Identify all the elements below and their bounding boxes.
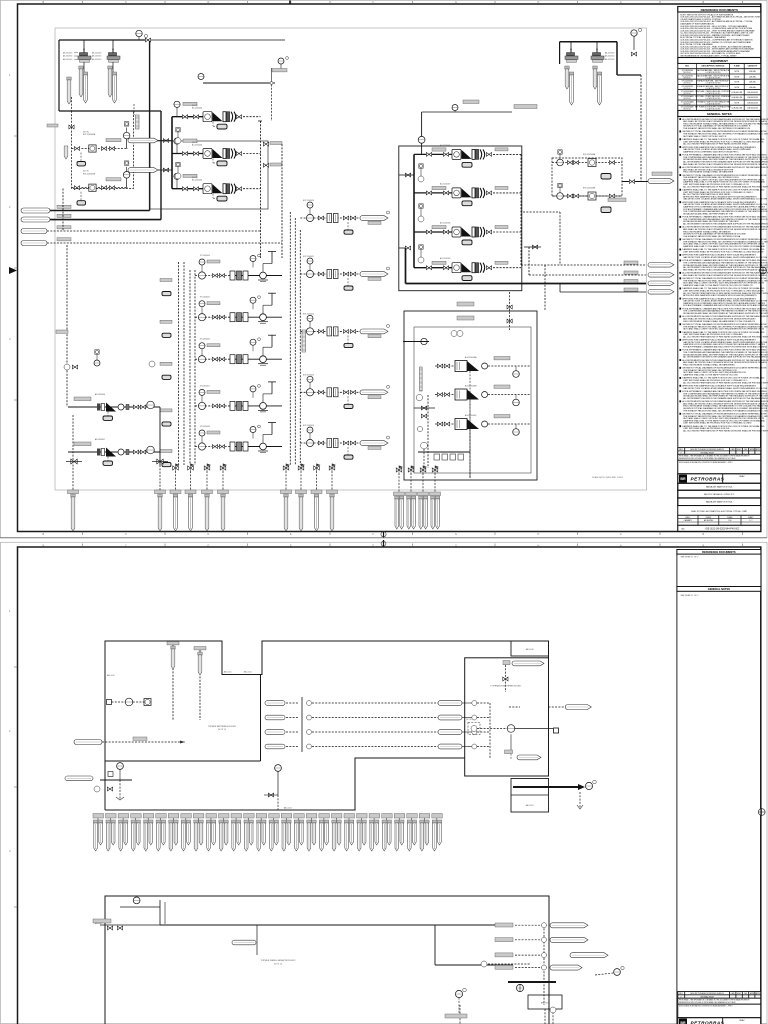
- package boundary AO unit: [399, 146, 522, 291]
- svg-text:I-DE-3M-: I-DE-3M-: [749, 71, 756, 73]
- blowdown header AO: [406, 248, 647, 284]
- filter unit F-2B: [591, 48, 604, 62]
- fan unit EXT-5202009: [552, 183, 622, 212]
- riser drop wires to flare: [176, 471, 436, 494]
- exhaust duct main: [513, 780, 596, 809]
- svg-text:SEE SHEET 1 OF 2: SEE SHEET 1 OF 2: [681, 595, 700, 597]
- AG inner boundary: [414, 327, 531, 473]
- vent stack VS-18: [306, 814, 317, 852]
- svg-text:LOCATION (NOTE): LOCATION (NOTE): [706, 71, 721, 74]
- discharge trunk AO: [520, 154, 522, 265]
- vent stack VS-9: [193, 814, 204, 852]
- vent stack VS-15: [269, 814, 280, 852]
- wire filters2 to header: [571, 42, 597, 52]
- svg-text:VT-5205005: VT-5205005: [200, 297, 210, 299]
- thermowell TW-2: [79, 66, 83, 97]
- drain valve row G1: [173, 464, 227, 472]
- discharge trunk AC: [258, 121, 262, 258]
- svg-text:ABL-5010: ABL-5010: [107, 674, 115, 677]
- vent stack VS-12: [231, 814, 242, 852]
- exhaust train EXT-5205014: [300, 425, 389, 459]
- svg-text:REFERENCE DOCUMENTS: REFERENCE DOCUMENTS: [702, 550, 736, 554]
- svg-text:CHK: CHK: [744, 449, 747, 451]
- svg-text:ALL DUCTWORK PENETRATIONS OF F: ALL DUCTWORK PENETRATIONS OF FIRE RATED …: [683, 143, 749, 146]
- wire to unit F: [640, 75, 642, 182]
- blower train AO-5202006: [414, 144, 521, 167]
- svg-text:AC-5202006: AC-5202006: [192, 107, 202, 110]
- lamp stack AC-B: [175, 128, 181, 144]
- equipment table: [678, 58, 761, 111]
- vt trunk bundle: [179, 262, 196, 465]
- drain valve AF-2: [152, 459, 168, 464]
- thermowell TW-6: [565, 66, 569, 89]
- svg-text:ABL-5011: ABL-5011: [224, 671, 231, 674]
- svg-text:I-DE-3010.1M: I-DE-3010.1M: [732, 97, 743, 99]
- svg-text:FOR A HYPERBARIC CHAMBER AND F: FOR A HYPERBARIC CHAMBER AND FACILITIES …: [683, 346, 767, 349]
- flare thermowell pair FT-11: [394, 492, 405, 529]
- flare thermowell FT-3: [170, 490, 181, 531]
- supply duct west: [74, 737, 185, 745]
- AG left instruments: [414, 394, 435, 468]
- left branch valves AO: [399, 173, 414, 250]
- trunk branch valves: [263, 142, 282, 259]
- fan unit EXT-5205006: [72, 161, 130, 205]
- limit box C: [528, 995, 562, 1009]
- vent stack VS-8: [181, 814, 192, 852]
- thermowell TW-1: [67, 77, 71, 104]
- svg-text:G: G: [455, 533, 457, 536]
- drawing area inner boundary: [55, 28, 647, 490]
- vent feeder: [544, 265, 546, 311]
- svg-text:AB-5202002: AB-5202002: [605, 58, 614, 61]
- svg-text:DAMPERS UPON CONFIRMED GAS DET: DAMPERS UPON CONFIRMED GAS DETECTION AS …: [683, 150, 739, 153]
- package unit EXT-5205005A/B boundary: [72, 111, 134, 189]
- package boundary AG unit: [404, 311, 537, 480]
- fan train VT-5205005: [160, 293, 282, 337]
- heater train AG-5205008A: [435, 356, 530, 478]
- blower train AO-5202009: [414, 257, 521, 280]
- svg-text:I-DE-3M-: I-DE-3M-: [749, 82, 756, 84]
- AF upper instruments: [64, 350, 155, 370]
- svg-text:REV.: REV.: [679, 449, 683, 451]
- flare thermowell FT-7: [281, 490, 292, 531]
- svg-text:HVAC SYSTEM - AUTOMATION & ELE: HVAC SYSTEM - AUTOMATION & ELECTRICAL TY…: [691, 510, 748, 513]
- svg-text:AB-5202001: AB-5202001: [63, 52, 72, 55]
- equipment room boundary B: [465, 658, 549, 776]
- svg-text:SCALE NOTE: DWG. REF. 1-5202: SCALE NOTE: DWG. REF. 1-5202: [592, 476, 624, 479]
- svg-text:GRAU: GRAU: [739, 475, 745, 478]
- lamp stack AC-C: [175, 162, 181, 179]
- vent stack VS-25: [394, 814, 405, 852]
- svg-text:AF-5205007: AF-5205007: [95, 438, 105, 441]
- exhaust train EXT-5205010: [300, 200, 389, 234]
- lamp stacks AO: [418, 164, 424, 182]
- riser pipe from inlet B: [160, 111, 162, 220]
- vent stack VS-3: [118, 814, 129, 852]
- compressor train AC-5202006: [172, 101, 261, 129]
- thermowell TW-4: [108, 66, 112, 97]
- svg-text:G: G: [455, 544, 457, 547]
- svg-text:(NOTE 4): (NOTE 4): [683, 88, 691, 90]
- svg-text:AB-5202001: AB-5202001: [92, 58, 101, 61]
- svg-text:IIA T3 AND SHALL COMPLY WITH I: IIA T3 AND SHALL COMPLY WITH IEC 60079 R: [683, 135, 727, 138]
- flare thermowell pair FT-12: [406, 492, 417, 529]
- svg-text:EXT-5205005A: EXT-5205005A: [83, 133, 96, 136]
- exhaust train EXT-5205011: [300, 256, 389, 290]
- room C inlet cluster: [93, 897, 165, 930]
- svg-text:VT-5205008: VT-5205008: [200, 426, 210, 428]
- outlet arrow R1: [624, 261, 674, 267]
- AG inlet labels: [457, 302, 474, 320]
- title block page 1: [678, 448, 761, 532]
- svg-text:(NOTE 12): (NOTE 12): [218, 729, 227, 731]
- svg-text:DAMPERS SHALL FAIL TO THE SAFE: DAMPERS SHALL FAIL TO THE SAFE POSITION …: [683, 284, 753, 287]
- svg-text:F OPERATOR BATTERIES ROOM 1: F OPERATOR BATTERIES ROOM 1: [491, 685, 522, 688]
- outlet arrow R2: [624, 271, 674, 277]
- side inlet AC-C: [128, 168, 172, 173]
- svg-text:PETROBRAS: PETROBRAS: [691, 477, 725, 482]
- corner tag box: [511, 641, 549, 656]
- svg-text:ABL-5012: ABL-5012: [244, 671, 252, 674]
- svg-text:AF-5205006: AF-5205006: [95, 393, 105, 396]
- svg-text:(NOTE 12): (NOTE 12): [274, 963, 283, 965]
- svg-text:BACIA DE SANTOS E SUL: BACIA DE SANTOS E SUL: [706, 486, 733, 489]
- page 1 border frame: [18, 4, 761, 532]
- svg-text:EXEC.: EXEC.: [686, 517, 691, 519]
- svg-text:INSTALLATION AND SHALL BE PERF: INSTALLATION AND SHALL BE PERFORMED BY T…: [683, 212, 733, 215]
- wire drop to unit B: [47, 97, 74, 129]
- svg-text:I-DE-3010.1M: I-DE-3010.1M: [732, 92, 743, 94]
- local panel cluster: [65, 763, 132, 800]
- svg-text:EXT-5202008A: EXT-5202008A: [583, 153, 596, 156]
- vent stack VS-7: [168, 814, 179, 852]
- svg-text:FIELD INSTRUMENT SIGNALS SHALL: FIELD INSTRUMENT SIGNALS SHALL BE HARDWI…: [683, 363, 735, 366]
- svg-text:C: C: [125, 1, 127, 4]
- inlet arrow N-3: [21, 226, 260, 234]
- outlet east line: [608, 172, 674, 202]
- svg-text:VT-5205004: VT-5205004: [200, 255, 210, 257]
- svg-text:DESCRIPTION AND/OR REVISED SHE: DESCRIPTION AND/OR REVISED SHEETS: [690, 448, 724, 451]
- page 2 sheet edge: [0, 542, 767, 1023]
- svg-text:D: D: [208, 533, 210, 536]
- p2 general notes box: [677, 587, 761, 1024]
- wire filters to header: [84, 40, 113, 52]
- svg-text:GAS DETECTORS LOCATED AT AIR I: GAS DETECTORS LOCATED AT AIR INTAKES SHA…: [683, 256, 768, 259]
- svg-text:PETROBRAS: PETROBRAS: [691, 1021, 725, 1024]
- svg-text:AC-5202006: AC-5202006: [192, 179, 202, 182]
- svg-text:APPROVED FIRE DAMPERS IN ACCOR: APPROVED FIRE DAMPERS IN ACCORDANCE WITH…: [683, 294, 757, 297]
- page 1 sheet edge: [0, 0, 767, 537]
- inlet arrow N-4: [21, 238, 282, 246]
- drain valve row H: [396, 466, 439, 474]
- hvac room boundary C: [105, 896, 549, 1024]
- zone target right edge: [760, 267, 767, 274]
- svg-text:AO-5202007: AO-5202007: [440, 182, 450, 185]
- svg-text:VT-5205007: VT-5205007: [200, 385, 210, 387]
- hatched tag G1: [302, 330, 306, 352]
- page 2 margin ticks: [43, 540, 743, 547]
- svg-text:LIMIT SWITCHES SHALL BE PROVID: LIMIT SWITCHES SHALL BE PROVIDED FOR FUL…: [683, 251, 764, 254]
- svg-text:AG-5205008A: AG-5205008A: [465, 356, 477, 359]
- svg-text:IIA T3 AND SHALL COMPLY WITH I: IIA T3 AND SHALL COMPLY WITH IEC 60079 R…: [683, 328, 764, 331]
- svg-text:DAMPERS SHALL FAIL TO THE SAFE: DAMPERS SHALL FAIL TO THE SAFE POSITION …: [683, 374, 738, 377]
- unit boundary AC trains: [150, 141, 268, 209]
- svg-text:ALL DUCTWORK PENETRATIONS OF F: ALL DUCTWORK PENETRATIONS OF FIRE RATED …: [683, 381, 768, 384]
- svg-text:CAPACITY: CAPACITY: [748, 65, 758, 68]
- vent stack VS-26: [407, 814, 418, 852]
- svg-text:I-DE-3010.1M: I-DE-3010.1M: [732, 108, 743, 110]
- flare thermowell FT-2: [155, 490, 166, 531]
- room A register rows: [265, 697, 438, 752]
- reference documents box: [678, 7, 761, 58]
- svg-text:FOR A HYPERBARIC CHAMBER AND F: FOR A HYPERBARIC CHAMBER AND FACILITIES …: [683, 304, 767, 307]
- svg-text:EXT-5202008B: EXT-5202008B: [583, 188, 596, 190]
- room B lower vent: [505, 734, 542, 760]
- vent stack VS-6: [156, 814, 167, 852]
- manifold AO: [413, 154, 415, 267]
- flare thermowell FT-1: [68, 490, 79, 531]
- vent stack VS-28: [432, 814, 443, 852]
- scale note: [592, 476, 624, 479]
- AG top instruments: [507, 292, 512, 330]
- svg-text:AG-5205008B: AG-5205008B: [465, 385, 477, 388]
- svg-text:TAG: TAG: [685, 65, 689, 68]
- side inlet AC-B: [128, 138, 172, 143]
- svg-text:(NOTE 4): (NOTE 4): [683, 77, 691, 79]
- svg-text:LOCATION (NOTE): LOCATION (NOTE): [706, 102, 721, 105]
- thermowell TW-9: [597, 72, 601, 105]
- vent stack VS-23: [369, 814, 380, 852]
- heater train AG-5205008C: [435, 414, 530, 478]
- svg-text:SHEET: SHEET: [748, 517, 753, 519]
- svg-text:I-DE-3010.1M: I-DE-3010.1M: [747, 97, 758, 99]
- svg-text:AND SHALL BE TESTED IN ACCORDA: AND SHALL BE TESTED IN ACCORDANCE WITH T…: [683, 268, 767, 271]
- svg-text:ALL INSTRUMENTS SHOWN IN THIS: ALL INSTRUMENTS SHOWN IN THIS DRAWING AR…: [683, 356, 768, 359]
- fan train VT-5205007: [160, 382, 282, 426]
- svg-text:I-DE-3010.1M-5202-944-P4X-002: I-DE-3010.1M-5202-944-P4X-002: [705, 529, 740, 531]
- svg-text:I-DE-3010.1M: I-DE-3010.1M: [747, 108, 758, 110]
- svg-text:GAS DETECTORS LOCATED AT AIR I: GAS DETECTORS LOCATED AT AIR INTAKES SHA…: [683, 198, 768, 201]
- filter unit F-1B: [92, 48, 120, 75]
- outlet arrow R3: [624, 280, 674, 286]
- svg-text:LOCATION (NOTE): LOCATION (NOTE): [706, 87, 721, 90]
- svg-text:SEE SHEET 1 OF 2: SEE SHEET 1 OF 2: [681, 557, 700, 559]
- vent stack VS-17: [294, 814, 305, 852]
- corridor signal rows: [438, 701, 490, 759]
- manifold AC: [171, 117, 173, 189]
- svg-text:H: H: [538, 533, 540, 536]
- svg-text:FIELD INSTRUMENT SIGNALS SHALL: FIELD INSTRUMENT SIGNALS SHALL BE HARDWI…: [683, 320, 755, 323]
- instrument flag top-center: [278, 57, 288, 70]
- svg-text:EXT-5205012: EXT-5205012: [303, 313, 314, 315]
- svg-text:EXT-5205011: EXT-5205011: [303, 256, 314, 258]
- thermowell on box B edge: [64, 146, 68, 159]
- svg-text:LOCATION (NOTE): LOCATION (NOTE): [706, 76, 721, 79]
- drain valve row G2: [283, 464, 336, 472]
- vent stack VS-20: [331, 814, 342, 852]
- vent stack VS-19: [319, 814, 330, 852]
- flare thermowell pair FT-14: [430, 492, 441, 529]
- fan unit EXT-5202008: [552, 150, 622, 179]
- svg-text:AB-5202002: AB-5202002: [605, 52, 614, 55]
- pipe header top-right: [560, 42, 641, 75]
- blower train AF-5205007: [68, 438, 160, 465]
- svg-text:DESCRIPTION AND/OR REVISED SHE: DESCRIPTION AND/OR REVISED SHEETS: [690, 992, 724, 995]
- vent stack VS-22: [357, 814, 368, 852]
- svg-text:AB-5202001: AB-5202001: [92, 55, 101, 58]
- svg-text:GAS DETECTORS LOCATED AT AIR I: GAS DETECTORS LOCATED AT AIR INTAKES SHA…: [683, 387, 768, 390]
- center instrument drop: [264, 765, 281, 810]
- heater train AG-5205008B: [435, 385, 530, 479]
- general notes column: [678, 111, 768, 532]
- svg-text:ABL-5016: ABL-5016: [526, 648, 534, 651]
- page 2 border frame: [18, 547, 761, 1024]
- room A limit labels: [107, 671, 292, 810]
- svg-text:1:50: 1:50: [728, 520, 731, 522]
- exhaust train EXT-5205013: [300, 374, 389, 408]
- svg-text:VT-5205006: VT-5205006: [200, 339, 210, 341]
- svg-text:GENERAL NOTES: GENERAL NOTES: [708, 587, 731, 591]
- instrument PI-01: [136, 30, 148, 40]
- svg-text:AB-5202001: AB-5202001: [63, 58, 72, 61]
- flare thermowell FT-9: [311, 490, 322, 531]
- svg-text:REFERENCE DOCUMENTS: REFERENCE DOCUMENTS: [701, 8, 738, 12]
- svg-text:I-DE-3010.1M: I-DE-3010.1M: [747, 102, 758, 104]
- room C main duct: [160, 925, 513, 965]
- vent stack VS-27: [419, 814, 430, 852]
- inlet line AO: [418, 100, 537, 154]
- svg-text:BR: BR: [680, 477, 686, 481]
- svg-text:GRAU: GRAU: [739, 1019, 745, 1022]
- svg-text:AG-5205008C: AG-5205008C: [465, 414, 477, 417]
- fold mark arrow left margin: [9, 267, 17, 274]
- svg-text:TOPSIDE DIESEL GENSETS ROOM 2: TOPSIDE DIESEL GENSETS ROOM 2: [261, 960, 297, 962]
- svg-text:AB-5202001: AB-5202001: [92, 52, 101, 55]
- title block page 2 (partial): [678, 992, 761, 1024]
- svg-text:INSTALLATION AND SHALL BE PERF: INSTALLATION AND SHALL BE PERFORMED BY T…: [683, 312, 768, 315]
- svg-text:(NOTE 4): (NOTE 4): [683, 93, 691, 95]
- fan train VT-5205008: [160, 423, 282, 467]
- room A title note: [208, 725, 238, 731]
- riser pipe from inlet A: [149, 40, 151, 211]
- svg-text:DESCRIPTION / SERVICE: DESCRIPTION / SERVICE: [702, 66, 726, 68]
- vent return upper: [523, 212, 560, 265]
- svg-text:CHK: CHK: [744, 993, 747, 995]
- vent stack VS-11: [219, 814, 230, 852]
- hatched tag B1: [134, 104, 139, 129]
- duct riser 2: [194, 647, 206, 721]
- svg-text:EQUIPMENT: EQUIPMENT: [711, 59, 728, 63]
- svg-text:CHECK: CHECK: [706, 517, 713, 519]
- vent stack VS-24: [382, 814, 393, 852]
- relief line 4: [560, 284, 646, 293]
- wire instrument line y83: [198, 68, 287, 121]
- svg-text:(NOTE 4): (NOTE 4): [683, 72, 691, 74]
- transmitter row: [107, 698, 152, 706]
- AF vertical drop 2: [159, 407, 161, 498]
- svg-text:AB-5202001: AB-5202001: [63, 55, 72, 58]
- svg-text:1 / 2: 1 / 2: [749, 520, 752, 522]
- pipe header top-left: [59, 40, 161, 111]
- lower corner tag box: [511, 779, 549, 813]
- svg-text:FIELD INSTRUMENT SIGNALS SHALL: FIELD INSTRUMENT SIGNALS SHALL BE HARDWI…: [683, 171, 734, 174]
- duct riser 1: [167, 642, 179, 721]
- AG bottom manifold: [418, 442, 470, 468]
- svg-text:BUOYS VESSELS - FPSO P-1: BUOYS VESSELS - FPSO P-1: [704, 494, 735, 496]
- fan train VT-5205006: [160, 335, 282, 379]
- instrument PI-02: [631, 28, 642, 56]
- thermowell TW-5: [112, 72, 116, 103]
- svg-text:G: G: [455, 1, 457, 4]
- svg-text:(NOTE 7): (NOTE 7): [466, 719, 473, 721]
- svg-text:BACIA DE SANTOS E SUL: BACIA DE SANTOS E SUL: [706, 501, 733, 504]
- room B vent label: [503, 661, 544, 693]
- svg-text:I-DE-3010.1M: I-DE-3010.1M: [747, 92, 758, 94]
- filter unit F-2A: [565, 48, 614, 62]
- inlet arrow N-1: [21, 205, 150, 213]
- svg-text:I-DE-3M-: I-DE-3M-: [749, 76, 756, 78]
- drain valve AF-1: [66, 459, 82, 464]
- svg-text:ABL-5013: ABL-5013: [284, 806, 292, 809]
- svg-text:LOCATION (NOTE): LOCATION (NOTE): [706, 97, 721, 100]
- package unit EXT-5202008 boundary: [552, 158, 622, 196]
- svg-text:AO-5202008: AO-5202008: [440, 222, 450, 225]
- room C title note: [261, 960, 297, 965]
- vent stack VS-5: [143, 814, 154, 852]
- exhaust train EXT-5205012: [300, 313, 389, 347]
- svg-text:ABL-5018: ABL-5018: [541, 1002, 549, 1005]
- p2 reference documents box: [677, 550, 761, 587]
- svg-text:EXT-5205010: EXT-5205010: [303, 200, 314, 202]
- vent stack VS-10: [206, 814, 217, 852]
- svg-text:(NOTE 4): (NOTE 4): [683, 103, 691, 105]
- svg-text:AND SHALL BE TESTED IN ACCORDA: AND SHALL BE TESTED IN ACCORDANCE WITH T…: [683, 163, 767, 166]
- room C lower instruments: [445, 988, 467, 1024]
- svg-text:DAMPERS SHALL FAIL TO THE SAFE: DAMPERS SHALL FAIL TO THE SAFE POSITION …: [683, 245, 765, 248]
- svg-text:ALL DUCTWORK PENETRATIONS OF F: ALL DUCTWORK PENETRATIONS OF FIRE RATED …: [683, 185, 768, 188]
- flare thermowell FT-5: [202, 490, 213, 531]
- room C exhaust main: [481, 961, 624, 992]
- svg-text:P AND: P AND: [734, 65, 740, 68]
- filter unit F-1A: [63, 48, 91, 75]
- compressor train AC-5202007: [172, 138, 261, 166]
- valve V-01: [145, 38, 150, 42]
- flare thermowell FT-8: [296, 490, 307, 531]
- thermowell TW-8: [593, 66, 597, 89]
- room B transmitter row: [466, 719, 559, 735]
- vent line 1: [521, 264, 646, 266]
- vent stack VS-2: [106, 814, 117, 852]
- svg-text:I-DE-3M-: I-DE-3M-: [749, 87, 756, 89]
- west label: [56, 330, 68, 333]
- zone target right edge p2: [758, 809, 765, 816]
- blower train AO-5202007: [414, 182, 521, 205]
- flare thermowell FT-6: [218, 490, 229, 531]
- ext trunk bundle: [290, 212, 300, 465]
- AG upper instruments: [403, 331, 463, 392]
- vent line 2: [524, 245, 646, 275]
- svg-text:THE EXHAUST FAN MOTORS SHALL B: THE EXHAUST FAN MOTORS SHALL BE CERTIFIE…: [683, 235, 741, 238]
- svg-text:THE EXHAUST FAN MOTORS SHALL B: THE EXHAUST FAN MOTORS SHALL BE CERTIFIE…: [683, 127, 750, 130]
- svg-text:ALL DUCTWORK PENETRATIONS OF F: ALL DUCTWORK PENETRATIONS OF FIRE RATED …: [683, 335, 768, 338]
- svg-text:D: D: [208, 544, 210, 547]
- svg-text:ALL INSTRUMENTS SHOWN IN THIS: ALL INSTRUMENTS SHOWN IN THIS DRAWING AR…: [683, 397, 768, 400]
- svg-text:LIMIT SWITCHES SHALL BE PROVID: LIMIT SWITCHES SHALL BE PROVIDED FOR FUL…: [683, 422, 752, 425]
- svg-text:ALL DUCTWORK PENETRATIONS OF F: ALL DUCTWORK PENETRATIONS OF FIRE RATED …: [683, 430, 768, 433]
- svg-text:TOPSIDE BATTERIES ROOM 1: TOPSIDE BATTERIES ROOM 1: [208, 725, 238, 728]
- vent stack VS-4: [131, 814, 142, 852]
- west dashed riser to AF: [63, 189, 67, 408]
